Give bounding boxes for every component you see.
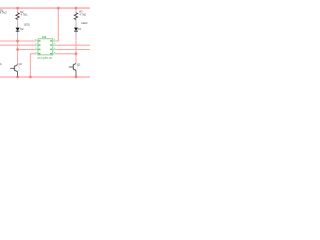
svg-text:D1: D1 <box>78 28 82 31</box>
svg-text:M1: M1 <box>0 63 2 66</box>
svg-text:D2: D2 <box>20 28 24 31</box>
svg-text:LED1: LED1 <box>24 23 31 26</box>
svg-text:4.7kΩ: 4.7kΩ <box>79 12 86 16</box>
svg-text:Q1: Q1 <box>77 64 81 67</box>
svg-text:4.7kΩ: 4.7kΩ <box>21 13 28 17</box>
svg-text:U1: U1 <box>42 35 46 39</box>
svg-text:Q2: Q2 <box>19 63 23 66</box>
svg-text:4.7kΩ: 4.7kΩ <box>0 11 7 15</box>
svg-text:LED2: LED2 <box>81 22 88 25</box>
svg-text:ATtiny85-20: ATtiny85-20 <box>37 56 52 60</box>
